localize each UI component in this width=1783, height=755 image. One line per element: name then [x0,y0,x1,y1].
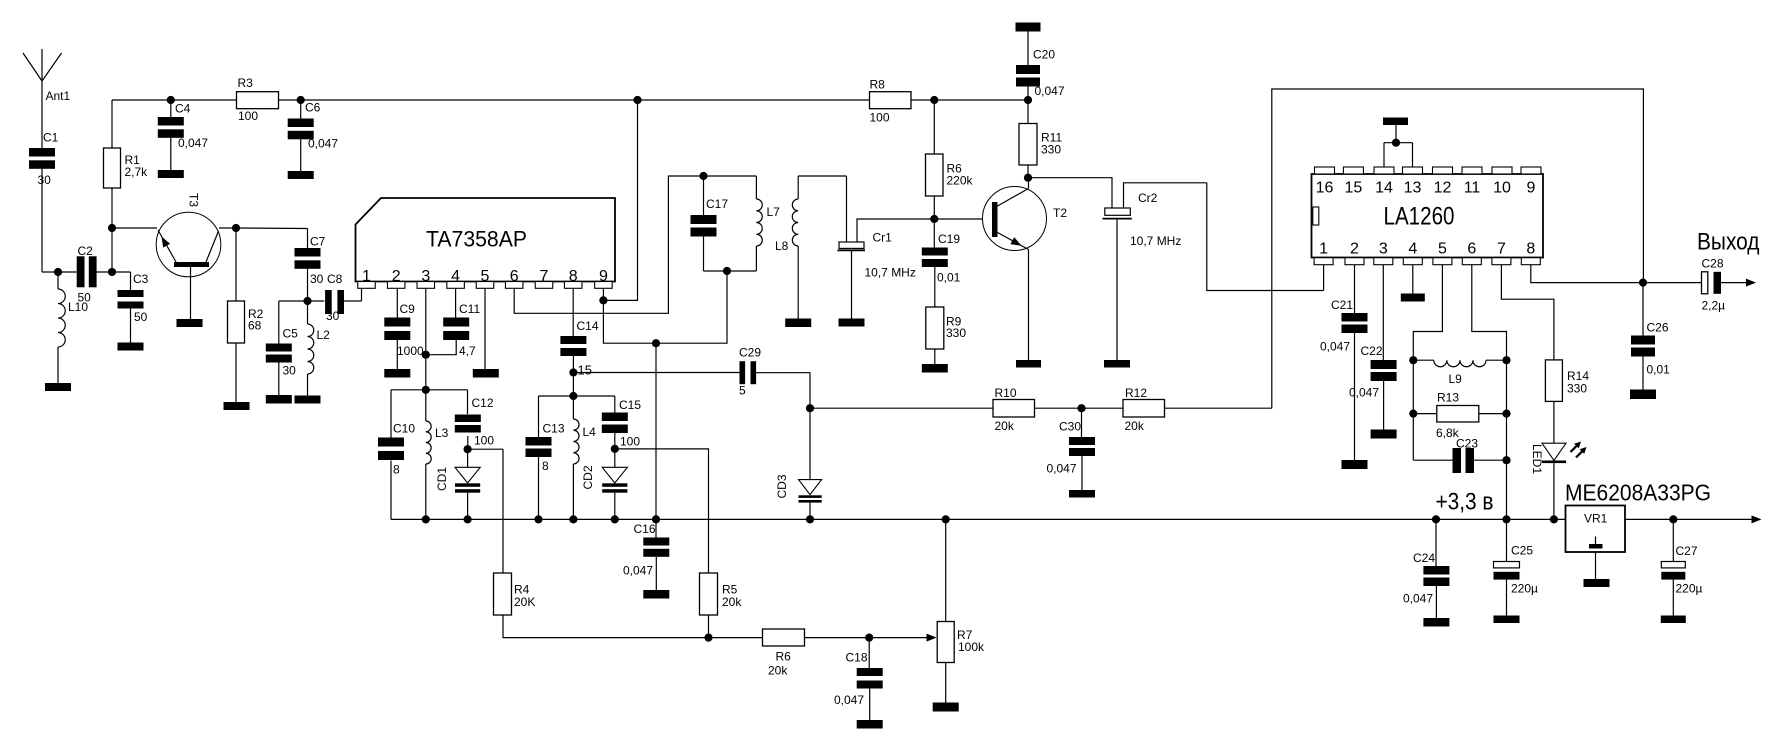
svg-text:100: 100 [870,111,890,125]
svg-text:16: 16 [1316,180,1334,197]
wire C6 to ground [300,139,302,171]
node pin9 [599,296,607,304]
node CD1 rail [464,515,472,523]
wire pin2 to C9 [396,288,398,317]
svg-text:12: 12 [1434,180,1452,197]
wire Cr2 to ground [1116,220,1118,361]
inductor L7 [756,176,780,271]
svg-text:330: 330 [1567,382,1587,396]
wire VR1 output [1625,515,1762,523]
node C18 tap [865,634,873,642]
svg-text:30: 30 [310,272,324,286]
svg-text:8: 8 [542,459,549,473]
svg-text:1000: 1000 [397,344,424,358]
svg-text:50: 50 [134,310,148,324]
svg-text:C6: C6 [305,101,321,115]
node C6 tap [297,96,305,104]
capacitor C5 [266,327,298,378]
ground under C6 [288,171,314,179]
svg-text:LA1260: LA1260 [1384,203,1455,231]
inductor L3 [426,390,449,520]
svg-text:1: 1 [362,268,371,285]
node CD2 top [611,445,619,453]
svg-text:LED1: LED1 [1530,444,1544,474]
wire mixer tap down to rail [655,343,657,519]
resistor R13 [1413,391,1506,441]
wire ground rail [391,518,1566,520]
wire R4 bottom [503,615,709,638]
svg-text:7: 7 [1497,241,1506,258]
wire C16 to ground [655,557,657,590]
wire CD1 node to R4 [468,448,503,450]
wire C21 to ground [1354,333,1356,461]
svg-text:C26: C26 [1647,321,1669,335]
svg-text:20k: 20k [995,419,1015,433]
wire node15 to C29 [573,372,739,374]
wire base tap to T3 [112,227,157,229]
svg-text:5: 5 [481,268,490,285]
label CD3 [775,474,789,498]
transistor T2 [983,178,1047,360]
svg-text:10,7 MHz: 10,7 MHz [865,266,916,280]
svg-text:T3: T3 [187,193,201,207]
svg-text:C21: C21 [1331,298,1353,312]
capacitor C2 [77,244,97,305]
wire R6 to C18 node [805,637,870,639]
svg-text:4: 4 [451,268,460,285]
svg-text:2: 2 [392,268,401,285]
node tank1 top [422,386,430,394]
svg-text:6: 6 [510,268,519,285]
svg-text:220µ: 220µ [1676,582,1703,596]
wire LA pin2 to C21 [1354,265,1356,313]
wire R6 to base node [933,196,935,219]
wire R8 to R6 node [911,99,934,101]
capacitor C1 [29,131,59,188]
svg-text:C14: C14 [577,319,599,333]
wire C3 to ground [130,309,132,343]
wire R12 to riser [1165,407,1272,409]
svg-text:100: 100 [474,434,494,448]
LA1260 bottom pin boxes [1314,258,1540,265]
label T2 [1053,206,1067,220]
wire C30 to ground [1081,456,1083,490]
wire C7 to node B [307,269,309,302]
svg-text:C23: C23 [1456,437,1478,451]
wire C24 to ground [1435,586,1437,618]
svg-text:CD3: CD3 [775,474,789,498]
wire C20 to node [1027,86,1029,100]
node C24 rail [1432,515,1440,523]
inductor L2 [308,301,331,396]
ground under C24 [1423,618,1449,627]
svg-text:20k: 20k [1125,419,1145,433]
svg-text:0,047: 0,047 [1403,592,1433,606]
ground under C5 [266,395,292,404]
wire rail to R3 [171,99,237,101]
wire R5 bottom [708,615,710,638]
wire top rail long [301,99,638,101]
label CD1 [435,467,449,491]
capacitor C20 [1016,23,1065,99]
wire pin5 to ground [484,288,486,369]
svg-text:15: 15 [578,363,592,378]
svg-text:7: 7 [540,268,549,285]
ground under C3 [118,343,144,351]
wire LA pin8 to output node [1531,265,1643,283]
node CD1 top [464,445,472,453]
resistor R8 [870,78,912,125]
resistor R6 220k [926,154,974,196]
wire pin8 to C14 [572,288,574,336]
svg-text:C15: C15 [619,398,641,412]
svg-text:C22: C22 [1361,344,1383,358]
node B junction [303,297,311,305]
capacitor C3 [118,272,149,324]
svg-text:C16: C16 [634,522,656,536]
label Ant1 [46,89,71,103]
capacitor C8 [325,272,344,323]
varicap CD2 [602,449,627,493]
svg-text:14: 14 [1375,180,1393,197]
ground under pin5 [473,369,499,378]
resistor R9 [926,307,967,349]
ground under L10 [45,383,71,391]
LED LED1 [1542,442,1587,464]
svg-text:C19: C19 [938,232,960,246]
ground under C4 [158,170,184,178]
svg-text:C25: C25 [1511,544,1533,558]
svg-text:C11: C11 [459,302,480,316]
svg-text:ME6208A33PG: ME6208A33PG [1565,480,1711,506]
svg-text:R12: R12 [1125,386,1147,400]
svg-text:C8: C8 [327,272,343,286]
svg-text:0,01: 0,01 [1647,363,1671,377]
node C16 rail [652,515,660,523]
ground under Cr1 [839,319,865,327]
svg-text:Cr2: Cr2 [1138,191,1158,205]
svg-text:C12: C12 [472,396,494,410]
svg-text:8: 8 [1526,241,1535,258]
svg-text:1: 1 [1319,241,1328,258]
wire R14 to LED1 [1553,401,1555,443]
varicap CD3 [799,408,822,502]
wire pin9 stub [602,288,604,300]
wire tank2 right to C15 [614,396,616,413]
voltage regulator VR1 ME6208A33PG [1566,506,1626,553]
svg-text:C27: C27 [1676,544,1698,558]
wire pin9 to top rail [603,100,637,300]
wire node B to C5 [279,301,308,344]
op-amp U2 LA1260 body [1312,174,1544,258]
svg-text:8: 8 [393,463,400,477]
capacitor C19 [922,219,961,285]
ground under pin4 [1401,294,1425,302]
ground under C18 [857,720,883,729]
wire LED1 to rail [1553,463,1555,519]
wire node B to C8 [308,300,325,302]
capacitor C9 [384,302,424,358]
wire to R6 [709,637,763,639]
ground under C9 [384,369,410,378]
node CD3 rail [806,515,814,523]
capacitor C4 [158,100,209,150]
svg-text:13: 13 [1404,180,1422,197]
wire rail to R8 [638,99,870,101]
svg-text:0,047: 0,047 [1047,462,1077,476]
svg-text:R10: R10 [995,386,1017,400]
node C27 rail [1669,515,1677,523]
capacitor C30 [1047,408,1096,475]
svg-text:R8: R8 [870,78,886,92]
label T3 [187,193,201,207]
resistor R2 [228,301,264,343]
svg-text:C30: C30 [1059,420,1081,434]
capacitor C28 [1702,257,1726,313]
wire LA pin1 [1323,265,1325,291]
wire pins 14 13 jumper [1384,143,1413,167]
svg-text:CD2: CD2 [581,465,595,489]
wire output node to C28 [1643,282,1702,284]
ground under R7 [933,703,959,712]
svg-text:L9: L9 [1449,372,1463,386]
capacitor C14 [560,319,598,356]
capacitor C6 [288,100,339,151]
resistor R14 [1545,360,1589,402]
wire C15 to CD2 node [614,433,616,449]
resistor R3 [237,76,279,123]
svg-text:3: 3 [421,268,430,285]
inductor L4 [573,396,596,519]
crystal Cr2 [1103,183,1207,248]
node output [1639,279,1647,287]
wire R2 to ground [235,343,237,402]
wire C8 to pin1 [344,288,362,301]
wire LA pin4 to ground [1412,265,1414,294]
capacitor C15 [602,398,642,449]
capacitor C29 [739,346,761,398]
svg-text:2,2µ: 2,2µ [1702,299,1726,313]
svg-text:C5: C5 [283,327,299,341]
node CD2 rail [611,515,619,523]
node LED1 rail [1550,515,1558,523]
svg-text:30: 30 [38,173,52,187]
svg-text:10,7 MHz: 10,7 MHz [1130,234,1181,248]
wire collector node to Cr2 [1028,178,1112,208]
svg-text:0,047: 0,047 [308,137,338,151]
svg-text:C10: C10 [393,422,415,436]
svg-text:L2: L2 [317,328,331,342]
wire tank1 right to C12 [467,390,469,414]
svg-text:C2: C2 [78,244,94,258]
wire C12 to CD1 node [467,436,469,449]
svg-text:0,047: 0,047 [623,564,653,578]
node pin6 rail [1502,515,1510,523]
label LED1 [1530,444,1544,474]
wire R10 to C30 node [1035,407,1082,409]
node tank2 top [569,392,577,400]
ground under C21 [1342,460,1368,469]
wire R6 down [933,100,935,154]
node R6 top [930,96,938,104]
capacitor C25 electrolytic [1494,519,1539,595]
svg-text:C13: C13 [543,422,565,436]
ground under L8 [785,319,811,328]
svg-text:C18: C18 [846,651,868,665]
TA7358AP pin numbers [362,268,608,285]
wire tank1 left [390,390,392,438]
svg-text:+3,3 в: +3,3 в [1436,489,1494,516]
resistor R1 [104,148,149,188]
svg-text:C28: C28 [1702,257,1724,271]
LA1260 top pin numbers [1316,180,1536,197]
wire C17 tank top [704,175,757,177]
svg-text:4: 4 [1408,241,1417,258]
wire C11 to pin3 line [426,340,456,355]
svg-text:C3: C3 [133,272,149,286]
antenna Ant1 [23,49,62,148]
capacitor C7 [295,229,326,287]
wire C10 to rail [390,461,392,520]
terminal bar above LA1260 [1383,118,1408,126]
inductor L10 [58,272,88,383]
svg-text:8: 8 [569,268,578,285]
svg-text:C1: C1 [43,131,59,145]
wire LA pin7 to R14 [1501,265,1554,360]
resistor R7 pot [937,519,985,662]
svg-text:30: 30 [326,309,340,323]
resistor R11 [1019,100,1062,165]
svg-text:C29: C29 [739,346,761,360]
svg-text:C9: C9 [400,302,416,316]
LA1260 top pin boxes [1315,167,1542,174]
wire Cr1 to ground [851,251,853,319]
crystal Cr1 [838,176,935,280]
node C23 right [1502,456,1510,464]
svg-text:R3: R3 [238,76,254,90]
ground under T2 emitter [1016,360,1041,368]
svg-text:100: 100 [238,109,258,123]
svg-text:50: 50 [78,291,92,305]
wire R7 to ground [945,663,947,703]
LA1260 bottom pin numbers [1319,241,1535,258]
wire C2 to node A [97,271,131,273]
node mixer out tap [652,339,660,347]
capacitor C26 [1631,283,1670,377]
varicap CD1 [455,449,480,493]
svg-text:220µ: 220µ [1511,582,1538,596]
wire C13 to rail [538,457,540,519]
capacitor C24 [1403,519,1449,605]
label +3,3 v [1436,489,1494,516]
capacitor C23 [1413,437,1506,474]
svg-text:11: 11 [1464,180,1481,197]
svg-text:Выход: Выход [1697,229,1760,256]
resistor R10 [993,386,1035,433]
wire jumper to terminal [1395,125,1397,143]
ground under C27 [1661,616,1686,624]
wire CD2 to rail [614,493,616,520]
node L9 left [1409,356,1417,364]
svg-text:0,01: 0,01 [937,271,961,285]
node C30 tap [1077,404,1085,412]
wire riser to top loop [1272,89,1644,408]
svg-text:30: 30 [283,364,297,378]
label ME6208A33PG [1565,480,1711,506]
node 15 [569,363,592,378]
node T2 base [930,215,938,223]
svg-text:20k: 20k [768,664,788,678]
label Vyhod [1697,229,1760,256]
capacitor C21 [1320,298,1368,354]
ground under C22 [1371,430,1397,439]
node L9 right [1502,356,1510,364]
svg-text:C4: C4 [175,102,191,116]
ground under C30 [1069,490,1095,498]
svg-text:330: 330 [1041,143,1061,157]
svg-text:Ant1: Ant1 [46,89,71,103]
svg-text:9: 9 [599,268,608,285]
wire C4 to ground [170,138,172,171]
node C17 bottom [723,267,731,275]
wire to C20 node [934,99,1028,101]
svg-text:L7: L7 [767,205,781,219]
capacitor C11 [443,302,480,358]
capacitor C13 [526,422,565,474]
ground under L2 [295,396,321,404]
capacitor C16 [623,519,669,577]
svg-text:TA7358AP: TA7358AP [426,227,527,252]
wire base node to T2 [934,218,992,220]
wire C9 to ground [396,340,398,369]
node C17 top [699,172,707,180]
wire C30 node to R12 [1082,407,1124,409]
node pin9 rail tap [633,96,641,104]
svg-text:L4: L4 [583,425,597,439]
resistor R12 [1123,386,1165,433]
ground under C25 [1494,616,1520,624]
wire node A up to base tap [111,188,113,272]
svg-text:9: 9 [1527,180,1536,197]
capacitor C22 [1349,344,1397,400]
wire Cr2 to LA1260 pin1 [1207,183,1324,291]
svg-text:100k: 100k [958,640,985,654]
ground under T3 [177,319,203,327]
svg-text:220k: 220k [947,174,974,188]
svg-text:0,047: 0,047 [1035,84,1065,98]
wire CD3 to rail [809,503,811,520]
wire C22 to ground [1383,381,1385,430]
wire C27 to ground [1672,580,1674,616]
wire pin9 to C17 bottom [603,271,727,343]
node C13 rail [534,515,542,523]
svg-text:R13: R13 [1437,391,1459,405]
node R13 left [1409,410,1417,418]
resistor R5 [700,573,743,615]
wire LA pin5 to L9 left rail [1413,265,1442,461]
resistor R6 20k [763,629,805,678]
svg-text:2,7k: 2,7k [125,165,149,179]
node C20 bottom [1024,96,1032,104]
node L10 tap [54,268,62,276]
svg-text:C20: C20 [1033,48,1055,62]
node R5 bottom [704,634,712,642]
node base tap [108,224,116,232]
node T2 collector [1024,174,1032,182]
wire tank2 left [538,396,540,437]
svg-text:R6: R6 [776,650,792,664]
svg-text:2: 2 [1350,241,1359,258]
